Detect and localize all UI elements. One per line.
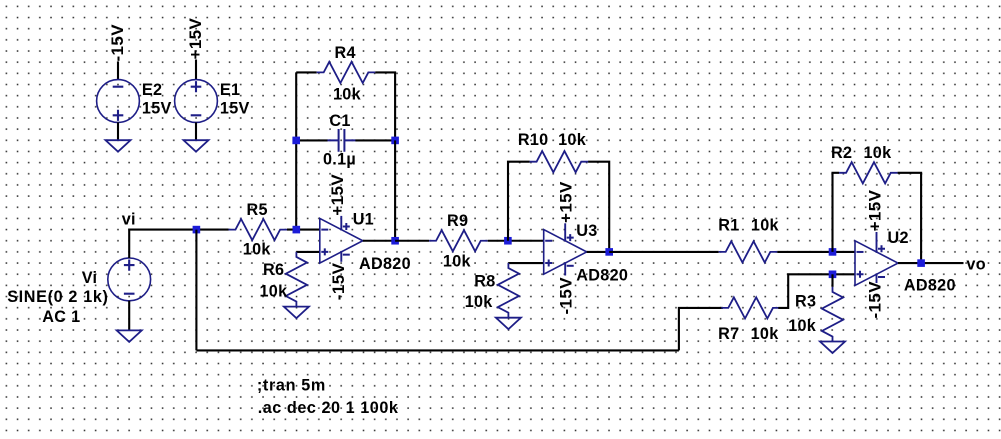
node U3 inverting junction xyxy=(504,237,512,245)
svg-text:+15V: +15V xyxy=(557,181,576,223)
wire bottom run xyxy=(196,349,679,351)
wire R2 right vertical xyxy=(898,173,922,263)
svg-text:R3: R3 xyxy=(795,292,816,310)
svg-text:-15V: -15V xyxy=(108,24,127,62)
wire U3 output xyxy=(587,251,610,253)
svg-text:R9: R9 xyxy=(447,212,468,230)
node U2 inverting junction xyxy=(829,248,837,256)
wire R7 to vertical xyxy=(778,274,832,308)
wire E1 top flag xyxy=(195,60,197,81)
wire U2 output xyxy=(898,262,964,264)
wire R2 left vertical xyxy=(833,173,840,252)
svg-text:SINE(0 2 1k): SINE(0 2 1k) xyxy=(7,288,108,306)
node U2 non-inverting junction xyxy=(829,271,837,279)
svg-text:Vi: Vi xyxy=(82,269,98,287)
svg-text:10k: 10k xyxy=(243,241,272,259)
resistor R10 xyxy=(530,151,589,172)
resistor R4 xyxy=(317,62,376,83)
wire C1 right xyxy=(355,139,395,141)
node U1 inverting junction xyxy=(293,226,301,234)
svg-text:U2: U2 xyxy=(888,229,909,247)
svg-text:10k: 10k xyxy=(751,325,780,343)
wire R1 to U2 node xyxy=(777,251,855,253)
wire Vi to ground xyxy=(128,301,130,331)
resistor R5 xyxy=(229,219,288,240)
node C1 right junction xyxy=(391,137,399,145)
wire U1 plus input xyxy=(296,251,319,253)
ground R8 xyxy=(496,318,521,330)
wire R4 left xyxy=(296,71,317,73)
svg-text:R7: R7 xyxy=(718,325,739,343)
wire up to R7 xyxy=(679,308,723,351)
svg-text:vo: vo xyxy=(966,255,986,273)
svg-text:.ac dec 20 1 100k: .ac dec 20 1 100k xyxy=(258,399,399,417)
resistor R9 xyxy=(429,230,488,251)
resistor R3 xyxy=(822,287,843,342)
ground Vi xyxy=(117,330,142,342)
wire right vertical to U1 out xyxy=(394,140,396,240)
svg-text:15V: 15V xyxy=(220,100,250,118)
wire R10 right vertical xyxy=(588,162,609,252)
svg-text:10k: 10k xyxy=(260,282,289,300)
svg-text:10k: 10k xyxy=(558,131,587,149)
node C1 left junction xyxy=(292,137,300,145)
resistor R2 xyxy=(839,162,898,183)
svg-text:-15V: -15V xyxy=(329,262,348,300)
node vi junction xyxy=(193,226,201,234)
svg-text:R1: R1 xyxy=(718,217,739,235)
wire vi node down xyxy=(195,230,197,351)
wire Vi top xyxy=(129,230,196,258)
svg-text:R4: R4 xyxy=(335,44,356,62)
wire R5 to U1 inverting node xyxy=(287,229,320,231)
wire E2 top flag xyxy=(117,62,119,81)
ground E1 xyxy=(184,140,209,152)
resistor R1 xyxy=(719,241,778,262)
wire R10 left vertical xyxy=(508,162,530,241)
svg-text:R8: R8 xyxy=(474,272,495,290)
ground E2 xyxy=(106,140,131,152)
svg-text:R6: R6 xyxy=(263,261,284,279)
wire U1 out to R9 xyxy=(395,240,429,242)
svg-text:;tran 5m: ;tran 5m xyxy=(257,377,326,395)
op-amp U2 xyxy=(855,232,898,285)
op-amp U1 xyxy=(320,216,363,263)
wire R3 top xyxy=(831,274,833,287)
op-amp U3 xyxy=(544,223,587,275)
svg-text:AD820: AD820 xyxy=(576,266,628,284)
resistor R7 xyxy=(721,297,780,318)
svg-text:U3: U3 xyxy=(576,222,597,240)
svg-text:E1: E1 xyxy=(220,81,240,99)
svg-text:10k: 10k xyxy=(443,252,472,270)
voltage source E2 xyxy=(97,80,140,123)
svg-text:+15V: +15V xyxy=(866,189,885,231)
ground R6 xyxy=(284,307,309,319)
svg-text:+15V: +15V xyxy=(186,17,205,59)
wire to U2 plus input xyxy=(833,273,856,275)
svg-text:C1: C1 xyxy=(329,112,350,130)
svg-text:-15V: -15V xyxy=(557,277,576,315)
svg-text:AD820: AD820 xyxy=(359,255,411,273)
svg-text:10k: 10k xyxy=(751,217,780,235)
wire C1 left xyxy=(296,139,327,141)
svg-text:R2: R2 xyxy=(831,144,852,162)
wire U3 plus input xyxy=(508,262,543,264)
voltage source E1 xyxy=(175,80,218,123)
wire E2 to ground xyxy=(117,122,119,140)
svg-text:10k: 10k xyxy=(465,293,494,311)
svg-text:-15V: -15V xyxy=(866,281,885,319)
wire R9 to U3 node xyxy=(488,240,544,242)
wire E1 to ground xyxy=(195,122,197,140)
node U1 output junction xyxy=(391,237,399,245)
svg-text:10k: 10k xyxy=(788,317,817,335)
svg-text:10k: 10k xyxy=(333,85,362,103)
wire U1 output xyxy=(363,240,395,242)
voltage source Vi xyxy=(108,258,151,301)
resistor R6 xyxy=(286,252,307,307)
svg-text:vi: vi xyxy=(122,210,136,228)
svg-text:+15V: +15V xyxy=(328,174,347,216)
node U3 output junction xyxy=(605,248,613,256)
svg-text:AD820: AD820 xyxy=(904,276,956,294)
wire vi node to R5 xyxy=(196,229,228,231)
svg-text:U1: U1 xyxy=(353,211,374,229)
svg-text:15V: 15V xyxy=(142,100,172,118)
node U2 output junction xyxy=(917,259,925,267)
svg-text:AC 1: AC 1 xyxy=(42,308,80,326)
capacitor C1 xyxy=(328,129,356,152)
wire U3 out to R1 xyxy=(609,251,719,253)
svg-text:0.1µ: 0.1µ xyxy=(323,151,356,169)
svg-text:R10: R10 xyxy=(518,131,549,149)
svg-text:10k: 10k xyxy=(864,144,893,162)
svg-text:R5: R5 xyxy=(247,201,268,219)
wire feedback left vertical xyxy=(295,72,297,229)
ground R3 xyxy=(820,342,845,354)
svg-text:E2: E2 xyxy=(142,81,162,99)
resistor R8 xyxy=(498,263,519,318)
wire R4 right xyxy=(375,72,395,140)
